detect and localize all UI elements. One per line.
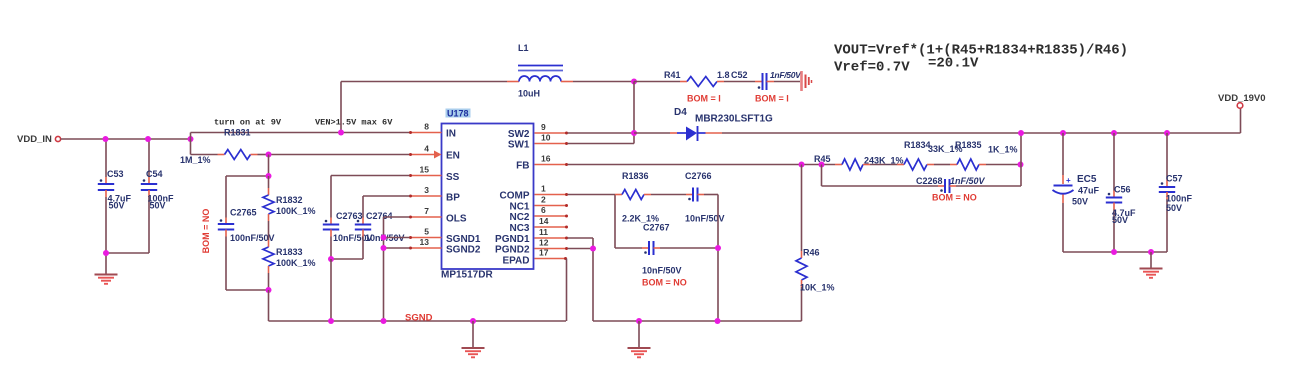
capacitor C53 — [98, 139, 132, 253]
svg-text:1K_1%: 1K_1% — [988, 145, 1018, 155]
svg-text:C56: C56 — [1114, 185, 1131, 195]
svg-text:17: 17 — [539, 248, 549, 258]
svg-text:BOM = I: BOM = I — [687, 94, 721, 104]
svg-text:NC3: NC3 — [509, 223, 529, 234]
svg-text:OLS: OLS — [446, 214, 467, 225]
wire jog up to IN — [191, 133, 410, 140]
svg-text:VDD_19V0: VDD_19V0 — [1218, 93, 1266, 104]
svg-text:R1833: R1833 — [276, 247, 303, 257]
svg-text:1: 1 — [541, 184, 546, 194]
svg-text:50V: 50V — [1112, 215, 1128, 225]
wire EPAD drop — [566, 259, 568, 322]
svg-text:C2268: C2268 — [916, 176, 943, 186]
pin 6 NC2 — [509, 205, 568, 223]
wire PGND1 drop — [568, 238, 594, 321]
pin 10 SW1 — [508, 133, 568, 151]
svg-text:C2764: C2764 — [366, 211, 393, 221]
wire to SGND rail — [268, 290, 270, 321]
svg-text:R1835: R1835 — [955, 140, 982, 150]
svg-text:NC2: NC2 — [509, 212, 529, 223]
pin 15 SS — [409, 165, 460, 184]
svg-text:10uH: 10uH — [518, 89, 540, 99]
node FB right — [1018, 162, 1024, 168]
svg-text:FB: FB — [516, 161, 529, 172]
node OLS rail — [381, 318, 387, 324]
svg-text:EN: EN — [446, 151, 460, 162]
wire VDD_IN rail — [61, 138, 191, 140]
pin 11 PGND1 — [495, 227, 568, 245]
svg-text:11: 11 — [539, 227, 548, 237]
svg-text:C57: C57 — [1166, 174, 1183, 184]
svg-text:C53: C53 — [107, 169, 124, 179]
wire SGND1 line — [384, 237, 410, 239]
pin 2 NC1 — [509, 195, 568, 213]
svg-text:L1: L1 — [518, 43, 529, 53]
node divider bottom — [266, 287, 272, 293]
port VDD_IN — [17, 134, 61, 145]
svg-text:100K_1%: 100K_1% — [276, 206, 316, 216]
svg-text:4: 4 — [424, 144, 429, 154]
node C56 bottom — [1111, 249, 1117, 255]
refdes U178 — [446, 109, 471, 119]
node out C56 — [1111, 130, 1117, 136]
node C2763 rail — [328, 318, 334, 324]
svg-text:VOUT=Vref*(1+(R45+R1834+R1835): VOUT=Vref*(1+(R45+R1834+R1835)/R46) — [834, 43, 1128, 59]
wire FB line — [568, 164, 836, 166]
svg-text:15: 15 — [420, 165, 430, 175]
svg-text:SS: SS — [446, 172, 460, 183]
svg-text:C2767: C2767 — [643, 223, 670, 233]
svg-text:SW1: SW1 — [508, 140, 530, 151]
svg-text:R41: R41 — [664, 70, 681, 80]
wire SW2 — [568, 132, 635, 134]
svg-text:=20.1V: =20.1V — [928, 56, 979, 72]
svg-text:SGND: SGND — [405, 313, 433, 324]
svg-text:7: 7 — [424, 206, 429, 216]
capacitor C54 — [141, 139, 174, 253]
wire SW vertical — [633, 82, 635, 134]
node SW — [631, 130, 637, 136]
svg-text:8: 8 — [424, 122, 429, 132]
node SGND2 — [381, 245, 387, 251]
text Vref — [834, 60, 910, 76]
svg-text:100nF: 100nF — [1166, 194, 1193, 204]
node C2767 out — [715, 245, 721, 251]
svg-text:VEN>1.5V max 6V: VEN>1.5V max 6V — [315, 118, 393, 128]
node L1 out — [631, 79, 637, 85]
capacitor C52 — [731, 70, 802, 90]
svg-text:SGND1: SGND1 — [446, 234, 481, 245]
wire top rail — [341, 81, 507, 83]
text BOM C52 — [755, 94, 789, 104]
svg-text:C52: C52 — [731, 70, 748, 80]
text BOM C2765 — [201, 209, 211, 254]
op-amp U1 box (MP1517DR) — [442, 124, 534, 270]
svg-text:10nF/50V: 10nF/50V — [642, 266, 682, 276]
svg-text:BOM = NO: BOM = NO — [642, 278, 687, 288]
capacitor C56 — [1106, 133, 1136, 252]
svg-text:1nF/50V: 1nF/50V — [950, 176, 986, 186]
node comp rail — [715, 318, 721, 324]
wire out bottom — [1063, 251, 1167, 253]
svg-text:MP1517DR: MP1517DR — [441, 270, 493, 281]
svg-text:10K_1%: 10K_1% — [800, 283, 835, 293]
svg-text:50V: 50V — [1166, 203, 1182, 213]
resistor R46 — [796, 165, 835, 322]
svg-text:BP: BP — [446, 193, 460, 204]
pin 4 EN — [409, 144, 460, 162]
svg-text:1.8: 1.8 — [717, 70, 730, 80]
resistor R45 — [814, 154, 904, 170]
ground PGND — [628, 321, 651, 357]
text BOM R41 — [687, 94, 721, 104]
svg-text:12: 12 — [539, 238, 549, 248]
resistor R1833 — [263, 240, 316, 290]
node caps join — [328, 256, 334, 262]
ground sideways — [802, 71, 812, 91]
resistor R1834 — [897, 140, 963, 170]
svg-text:16: 16 — [541, 154, 551, 164]
wire C2763 to rail — [330, 259, 332, 321]
pin 17 EPAD — [502, 248, 567, 267]
pin 3 BP — [409, 185, 460, 204]
pin 5 SGND1 — [409, 227, 481, 246]
node out FB tap — [1018, 130, 1024, 136]
node PGND gnd — [636, 318, 642, 324]
svg-text:R1836: R1836 — [622, 171, 649, 181]
pin 16 FB — [516, 154, 568, 172]
svg-text:EC5: EC5 — [1077, 174, 1097, 185]
wire C53-C54 bottom — [106, 252, 149, 254]
svg-text:50V: 50V — [109, 201, 125, 211]
node PGND2 — [590, 246, 596, 252]
svg-text:C54: C54 — [146, 169, 163, 179]
node SGND1 — [381, 235, 387, 241]
svg-text:C2765: C2765 — [230, 208, 257, 218]
svg-text:IN: IN — [446, 129, 456, 140]
resistor R41 — [634, 70, 755, 87]
svg-text:VDD_IN: VDD_IN — [17, 134, 52, 145]
svg-text:D4: D4 — [674, 107, 687, 118]
wire divider bottom — [226, 289, 269, 291]
svg-text:turn on at 9V: turn on at 9V — [214, 118, 282, 128]
svg-text:Vref=0.7V: Vref=0.7V — [834, 60, 910, 76]
wire down to EN line — [190, 139, 192, 155]
node R46 top — [799, 162, 805, 168]
svg-text:COMP: COMP — [500, 191, 530, 202]
svg-text:C2763: C2763 — [336, 211, 363, 221]
node C2268 branch — [819, 162, 825, 168]
svg-text:+: + — [1066, 176, 1071, 185]
pin 12 PGND2 — [495, 238, 568, 256]
inductor L1 — [507, 43, 634, 99]
svg-text:6: 6 — [541, 205, 546, 215]
capacitor C2766 — [685, 171, 725, 224]
wire PGND2 join — [568, 248, 594, 250]
text VOUT formula — [834, 43, 1128, 59]
diode D4 — [634, 107, 773, 141]
wire SS line — [331, 176, 410, 218]
wire BP line — [363, 196, 410, 218]
wire divider top — [226, 155, 269, 177]
wire PGND rail — [593, 320, 802, 322]
svg-text:9: 9 — [541, 122, 546, 132]
wire comp right vertical — [717, 195, 719, 322]
svg-text:MBR230LSFT1G: MBR230LSFT1G — [695, 114, 773, 125]
resistor R1831 — [180, 128, 269, 166]
svg-text:2: 2 — [541, 195, 546, 205]
capacitor C2268 — [822, 133, 1022, 193]
svg-text:BOM = I: BOM = I — [755, 94, 789, 104]
wire EN line — [269, 154, 410, 156]
ground SGND — [462, 321, 485, 357]
svg-text:R1832: R1832 — [276, 195, 303, 205]
svg-text:50V: 50V — [150, 201, 166, 211]
svg-text:SGND2: SGND2 — [446, 245, 481, 256]
svg-text:5: 5 — [424, 227, 429, 237]
svg-text:R45: R45 — [814, 154, 831, 164]
svg-text:PGND1: PGND1 — [495, 234, 530, 245]
capacitor C2767 — [615, 223, 718, 276]
wire riser — [340, 82, 342, 133]
node divider top — [266, 173, 272, 179]
node out C57 — [1164, 130, 1170, 136]
capacitor EC5 — [1053, 133, 1100, 252]
svg-text:14: 14 — [539, 216, 549, 226]
capacitor C2764 — [355, 211, 405, 259]
pin 9 SW2 — [508, 122, 568, 140]
svg-text:R1834: R1834 — [904, 140, 931, 150]
pin 7 OLS — [409, 206, 467, 225]
svg-text:47uF: 47uF — [1078, 186, 1100, 196]
svg-text:13: 13 — [420, 237, 430, 247]
pin 1 COMP — [500, 184, 569, 202]
node EN junction — [266, 152, 272, 158]
node gnd rail — [470, 318, 476, 324]
svg-text:NC1: NC1 — [509, 202, 529, 213]
svg-text:BOM = NO: BOM = NO — [932, 193, 977, 203]
pin 8 IN — [409, 122, 456, 140]
wire SGND rail — [269, 320, 567, 322]
resistor R1836 — [615, 171, 686, 224]
text turn-on note — [214, 118, 282, 128]
node out EC5 — [1060, 130, 1066, 136]
node C53 top — [103, 136, 109, 142]
capacitor C2763 — [323, 211, 373, 259]
svg-text:U178: U178 — [447, 109, 469, 119]
svg-text:3: 3 — [424, 185, 429, 195]
svg-text:R1831: R1831 — [224, 128, 251, 138]
wire SW1 — [568, 133, 635, 144]
svg-text:100K_1%: 100K_1% — [276, 258, 316, 268]
wire COMP — [568, 195, 616, 249]
node corner-jog — [188, 136, 194, 142]
text result — [928, 56, 979, 72]
node C54 top — [145, 136, 151, 142]
wire OLS line — [384, 217, 410, 321]
wire output rail — [722, 132, 1241, 134]
pin 14 NC3 — [509, 216, 568, 234]
svg-text:EPAD: EPAD — [502, 256, 529, 267]
node C53 bottom — [103, 250, 109, 256]
node riser — [338, 130, 344, 136]
text BOM C2268 — [932, 193, 977, 203]
svg-text:SW2: SW2 — [508, 129, 530, 140]
capacitor C2765 — [218, 176, 275, 290]
node gnd right — [1148, 249, 1154, 255]
svg-text:C2766: C2766 — [685, 171, 712, 181]
text SGND — [405, 313, 433, 324]
pin 13 SGND2 — [409, 237, 481, 256]
svg-text:50V: 50V — [1072, 197, 1088, 207]
port VDD_19V0 — [1218, 93, 1266, 133]
svg-text:1M_1%: 1M_1% — [180, 155, 211, 165]
svg-text:PGND2: PGND2 — [495, 245, 530, 256]
svg-text:10: 10 — [541, 133, 551, 143]
svg-text:R46: R46 — [803, 248, 820, 258]
text VEN note — [315, 118, 393, 128]
capacitor C57 — [1159, 133, 1193, 252]
text BOM C2767 — [642, 278, 687, 288]
svg-text:1nF/50V: 1nF/50V — [770, 70, 802, 80]
resistor R1835 — [950, 140, 1021, 170]
svg-text:BOM = NO: BOM = NO — [201, 209, 211, 254]
wire caps join — [331, 258, 363, 260]
wire SGND2 line — [384, 247, 410, 249]
text MP1517DR — [441, 270, 493, 281]
ground right — [1140, 252, 1163, 278]
ground left — [95, 253, 118, 284]
resistor R1832 — [263, 176, 316, 240]
